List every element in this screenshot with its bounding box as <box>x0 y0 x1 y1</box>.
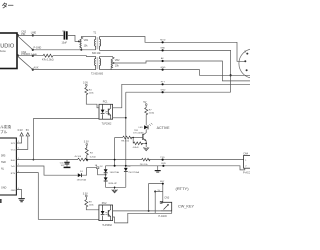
wire C1 to VR1 wiper <box>68 35 79 41</box>
node PHONO dot <box>32 55 34 57</box>
svg-text:5R5: 5R5 <box>1 155 6 158</box>
svg-text:3.3V: 3.3V <box>17 128 23 132</box>
wire PC1 collector to PTT rail <box>113 84 250 108</box>
svg-text:TLP2362: TLP2362 <box>102 224 112 227</box>
svg-text:R9: R9 <box>89 202 93 204</box>
svg-text:(RTTY): (RTTY) <box>176 186 190 191</box>
wire jumper to clamp node <box>98 169 106 175</box>
svg-text:P-ACC: P-ACC <box>243 171 250 174</box>
svg-text:10k: 10k <box>115 64 120 67</box>
node RxD rail junction <box>162 159 164 161</box>
svg-text:NJM-UP: NJM-UP <box>109 183 118 185</box>
svg-text:10P: 10P <box>61 165 65 167</box>
pin CN2-1 nub <box>17 34 19 37</box>
resistor R10 <box>85 197 95 207</box>
svg-text:GND: GND <box>1 187 7 190</box>
svg-text:ル変換: ル変換 <box>0 124 11 129</box>
wire pin2 horizontal <box>17 55 43 57</box>
svg-text:6.2kΩ: 6.2kΩ <box>90 156 96 158</box>
svg-text:2SC2705A: 2SC2705A <box>128 171 139 174</box>
svg-text:5V: 5V <box>26 128 29 132</box>
svg-text:RxD: RxD <box>11 160 16 162</box>
wire VR1 top to T1 primary <box>81 36 95 38</box>
wire R1 to T2 primary <box>53 55 96 58</box>
svg-text:GND: GND <box>161 67 166 69</box>
node R3 rail junction <box>86 159 88 161</box>
node ground riser junction <box>230 74 232 76</box>
resistor R7 <box>145 108 155 116</box>
wire shunt resistor leg <box>132 138 134 144</box>
svg-text:4k 100: 4k 100 <box>75 156 82 158</box>
svg-text:AF: AF <box>161 57 164 60</box>
wire emitter ground rail <box>126 91 231 93</box>
wire R7 to LED1 <box>145 115 147 125</box>
svg-text:LINE: LINE <box>31 32 37 35</box>
wire key B stub <box>155 192 163 214</box>
supply 5V for LED <box>143 101 147 106</box>
node rail3 junction <box>162 60 164 62</box>
ground chassis symbol <box>18 199 24 202</box>
node PC1 cathode riser junction <box>33 159 35 161</box>
wire PC1 cathode to RxD rail riser <box>33 119 99 160</box>
wire VR2 bottom / T2 secondary bottom rail <box>100 70 251 76</box>
wire base network <box>115 137 123 139</box>
svg-text:R7: R7 <box>149 110 153 112</box>
node rail1 junction <box>162 41 164 43</box>
resistor R9 base-emitter shunt <box>133 142 143 149</box>
supply arrow 3.3V <box>16 128 23 143</box>
connector CN4 <box>243 153 254 175</box>
svg-text:1SS270A: 1SS270A <box>110 171 120 174</box>
svg-text:R4: R4 <box>89 90 93 92</box>
node VR1 ground junction <box>80 49 82 51</box>
svg-text:KEY: KEY <box>160 181 165 183</box>
node rail6 junction <box>162 91 164 93</box>
svg-text:VR2: VR2 <box>115 59 120 62</box>
wire D2 to D3 <box>105 173 107 178</box>
LED LED1 ACTIVE <box>139 123 171 130</box>
diode D2 <box>100 166 119 174</box>
svg-text:220Ω: 220Ω <box>149 112 155 114</box>
supply 3.3V for PC1 <box>83 82 88 87</box>
svg-text:47k /1.5kΩ: 47k /1.5kΩ <box>42 58 54 61</box>
wire base feed riser <box>114 138 116 166</box>
svg-text:3V3: 3V3 <box>11 143 16 145</box>
svg-text:600:10k: 600:10k <box>92 52 101 55</box>
wiper arrow VR2 <box>112 62 115 64</box>
svg-text:TER: TER <box>1 161 6 164</box>
wire R8 to base <box>131 137 143 139</box>
transformer T2 <box>91 57 104 76</box>
wire AUX rail to T2 primary bottom <box>33 69 96 71</box>
wire D4 to ground bus <box>125 171 127 187</box>
wire D3 to ground bus <box>106 181 126 187</box>
wiper arrow VR1 <box>78 40 81 42</box>
svg-text:GND: GND <box>161 89 166 91</box>
node ground bus junction <box>114 187 116 189</box>
connector CN1 DIN socket <box>239 49 268 78</box>
svg-text:VR1: VR1 <box>84 39 89 42</box>
svg-text:MOD: MOD <box>160 40 166 42</box>
svg-text:PTT: PTT <box>161 82 166 84</box>
svg-text:100k: 100k <box>89 92 95 94</box>
svg-text:TXD: TXD <box>160 157 165 159</box>
wire 5V to R7 <box>145 106 147 108</box>
wire RxD rail <box>16 159 243 161</box>
node key A junction <box>162 183 164 185</box>
svg-text:Phone: Phone <box>0 49 6 53</box>
svg-text:TLP2362: TLP2362 <box>102 123 112 126</box>
wire RTS pin to PC2 cathode <box>16 173 99 220</box>
capacitor C1 <box>62 30 68 45</box>
wire PC1 emitter net <box>113 92 126 167</box>
supply 3.3V for PC2 <box>83 192 88 197</box>
svg-text:10uF: 10uF <box>62 42 68 45</box>
svg-text:2: 2 <box>245 166 247 168</box>
node key B junction <box>154 191 156 193</box>
node AUX dot <box>32 69 34 71</box>
pin CN2-2 nub <box>17 54 19 57</box>
svg-text:RTS: RTS <box>11 173 16 175</box>
ground stub on RX2 rail <box>157 166 159 171</box>
resistor R5 <box>140 158 150 166</box>
wire pin2 diagonal to AUX node <box>17 56 33 70</box>
clipped edge mark <box>0 199 2 203</box>
svg-text:RXD: RXD <box>161 163 166 165</box>
node rail2 junction <box>162 49 164 51</box>
resistor R4 <box>85 87 95 95</box>
wire RX2 rail to CN4 <box>105 166 244 170</box>
svg-text:3.3V: 3.3V <box>84 141 89 144</box>
wire TxD pin to D1 <box>16 166 77 175</box>
svg-text:LED: LED <box>139 127 144 129</box>
svg-text:D2: D2 <box>100 166 104 168</box>
svg-text:T1: T1 <box>93 31 97 35</box>
node rail4 junction <box>162 69 164 71</box>
svg-text:100k: 100k <box>89 204 95 206</box>
diode D3 <box>104 177 118 185</box>
node PC1 emitter junction <box>125 117 127 119</box>
svg-text:4.6kΩ: 4.6kΩ <box>133 147 139 149</box>
optocoupler PC2 <box>99 202 113 227</box>
supply 3.3V pullup <box>84 141 89 146</box>
wire PC2 emitter to jack sleeve <box>113 211 172 223</box>
svg-text:AUX: AUX <box>34 67 39 70</box>
wire T1 secondary top to DIN pin <box>100 37 245 62</box>
transformer T1 <box>92 31 101 55</box>
svg-text:ブル: ブル <box>0 129 8 134</box>
wire PC2 collector to jack <box>113 210 161 212</box>
resistor R8 base series <box>121 136 132 143</box>
svg-text:CW_KEY: CW_KEY <box>178 204 195 208</box>
transistor Q2 <box>133 130 146 141</box>
wire D1 to clamp node <box>82 168 97 176</box>
svg-text:NL: NL <box>1 167 5 170</box>
svg-text:R3: R3 <box>90 153 94 155</box>
node emitter junction <box>145 143 147 145</box>
svg-text:PC1: PC1 <box>103 101 108 104</box>
resistor R3 pullup <box>85 145 96 159</box>
node key junction <box>148 210 150 212</box>
wire emitter to ground <box>141 141 146 147</box>
svg-text:PC2: PC2 <box>102 202 107 205</box>
svg-text:AUDIO: AUDIO <box>0 44 15 50</box>
svg-text:TxD: TxD <box>11 166 15 168</box>
node base feed junction <box>114 159 116 161</box>
wire R4 to PC1 anode <box>86 95 99 108</box>
wire pin1 to C1 <box>17 34 63 36</box>
svg-text:CN3: CN3 <box>164 197 169 200</box>
svg-text:GND: GND <box>160 48 165 50</box>
wire T2 secondary top to VR2 <box>100 56 113 58</box>
svg-text:GND: GND <box>11 190 16 192</box>
node rail5 junction <box>162 83 164 85</box>
connector CN5 USB-serial box <box>0 124 20 195</box>
svg-text:P-GND: P-GND <box>34 47 42 50</box>
wire GND pin <box>16 190 21 199</box>
wire D2 top to RX2 rail <box>105 166 107 169</box>
wire key loop to jack tip <box>149 184 163 211</box>
resistor R1 <box>42 54 54 61</box>
diode D1 <box>77 171 87 182</box>
ground symbol clamp bus <box>112 187 118 193</box>
optocoupler PC1 <box>99 101 113 126</box>
wire 3.3V to R4 <box>85 86 87 87</box>
resistor R2 <box>75 156 89 161</box>
svg-text:3.3V: 3.3V <box>83 82 88 85</box>
wire VR2 wiper to AF rail <box>114 61 250 81</box>
svg-text:ター: ター <box>2 2 14 10</box>
svg-text:VCC: VCC <box>11 150 16 152</box>
svg-text:3.3V: 3.3V <box>83 192 88 195</box>
wire R10 to PC2 anode <box>86 207 99 210</box>
svg-text:D1: D1 <box>80 171 84 173</box>
potentiometer VR1 <box>80 37 89 48</box>
wire P-GND rail to T1 primary bottom <box>33 49 96 51</box>
wire pin1 diagonal to P-GND node <box>17 35 33 49</box>
node clamp junction <box>105 174 107 176</box>
diode D4 <box>124 166 140 174</box>
node RX2 rail junctions <box>114 165 116 167</box>
svg-text:P-JACK: P-JACK <box>159 215 168 218</box>
node RX2 mid junction <box>162 165 164 167</box>
ground symbol Q2 emitter <box>143 147 149 150</box>
svg-text:1SS270A: 1SS270A <box>77 179 87 182</box>
wire T1 secondary bottom (signal ground riser) <box>100 50 231 92</box>
svg-text:T2 600:600: T2 600:600 <box>91 73 104 76</box>
node base shunt junction <box>132 137 134 139</box>
potentiometer VR2 <box>111 57 120 70</box>
connector CN2 AUDIO box <box>0 33 17 69</box>
supply arrow 5V <box>16 128 29 149</box>
svg-text:ACTIVE: ACTIVE <box>157 126 171 130</box>
svg-text:1: 1 <box>245 160 247 162</box>
wire VR1 bottom to ground rail <box>80 48 82 50</box>
connector CN3 key jack <box>159 197 172 218</box>
capacitor C2 <box>60 160 71 168</box>
svg-text:10k: 10k <box>84 45 89 48</box>
wire LED1 to Q2 collector <box>143 129 146 134</box>
